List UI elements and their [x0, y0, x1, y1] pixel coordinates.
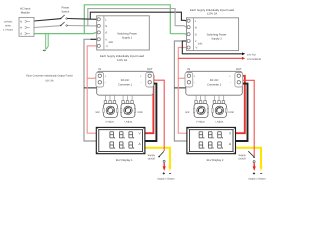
wire red arrow supply 1 output + — [163, 163, 166, 171]
svg-text:V Adjust: V Adjust — [196, 121, 205, 124]
svg-text:24V Fan: 24V Fan — [247, 54, 257, 57]
svg-text:Switch: Switch — [61, 10, 69, 13]
switching power supply 2 — [187, 18, 239, 51]
svg-text:V Adjust: V Adjust — [105, 121, 114, 124]
svg-text:Supply 2 Output: Supply 2 Output — [248, 177, 265, 180]
label 100K I adjust — [124, 111, 143, 124]
label power switch — [61, 6, 69, 13]
svg-text:N: N — [20, 21, 22, 24]
label 100K I adjust 2 — [215, 111, 234, 124]
svg-text:G: G — [20, 33, 22, 36]
label converter 1 IN OUT — [98, 68, 152, 71]
svg-text:OUT: OUT — [147, 68, 153, 71]
wire red tap to DC-DC converter 1 IN+ — [87, 76, 100, 78]
svg-text:Converter 1: Converter 1 — [118, 83, 133, 86]
wire thick black converter 1 OUT- to ELV display 1 right — [145, 82, 156, 141]
label 24V fan — [247, 54, 261, 62]
label supply 2 fuse note — [190, 9, 235, 16]
svg-text:120V 2A: 120V 2A — [117, 59, 128, 62]
svg-text:G: G — [195, 33, 197, 36]
svg-text:-: - — [105, 81, 106, 85]
label 50K V adjust — [95, 111, 114, 124]
label converter 2 IN OUT — [188, 68, 242, 71]
label supply 2 output terminals — [248, 172, 265, 180]
svg-text:100K: 100K — [137, 111, 143, 114]
label supply 1 output terminals — [157, 172, 174, 180]
svg-text:Supply: Supply — [238, 154, 246, 157]
svg-text:12V/110RPM: 12V/110RPM — [247, 58, 261, 61]
seven segment digits display 1 — [110, 132, 134, 149]
svg-text:G: G — [105, 32, 107, 35]
wire thick red converter 2 OUT+ to ELV display 2 right — [233, 76, 245, 133]
svg-text:60Hz: 60Hz — [5, 25, 11, 28]
potentiometer V adjust converter 2 — [193, 95, 208, 117]
svg-text:-: - — [230, 81, 231, 85]
svg-text:-: - — [141, 81, 142, 85]
svg-text:DC-DC: DC-DC — [210, 79, 219, 82]
wire red arrow supply 2 output + — [253, 163, 256, 171]
svg-text:H: H — [20, 27, 22, 30]
AC input module — [19, 17, 34, 36]
supply 2 on/off switch — [248, 151, 255, 162]
svg-text:120V 2A: 120V 2A — [207, 13, 218, 16]
wire black supply 2 pin V to 24V fan — [182, 41, 245, 55]
label AC ratings — [3, 21, 14, 32]
label AC input module — [20, 8, 31, 15]
wire red tap to DC-DC converter 2 IN+ — [178, 76, 189, 78]
svg-text:AC Input: AC Input — [20, 8, 31, 11]
wire hot black bus from power switch over supply 1 to supply 2 pin L — [90, 12, 186, 21]
wire green ground from AC module pin G to supply 1 pin G — [34, 33, 97, 34]
svg-text:ELV Display 2: ELV Display 2 — [207, 159, 224, 162]
wire black tap to DC-DC converter 2 IN- — [174, 83, 189, 88]
svg-text:I Adjust: I Adjust — [124, 121, 132, 124]
svg-text:-V: -V — [195, 47, 198, 50]
ELV display 2 — [187, 127, 236, 153]
svg-text:On/Off: On/Off — [239, 157, 246, 160]
svg-text:N: N — [105, 25, 107, 28]
wire neutral from AC module pin N to power switch — [34, 26, 60, 28]
wire red supply 1 pin -V down to ELV display 1 left — [87, 46, 97, 133]
svg-text:Each Supply Individually Input: Each Supply Individually Input Fused — [100, 55, 145, 58]
ground stub wires — [46, 34, 49, 50]
svg-text:Module: Module — [21, 12, 30, 15]
svg-text:Supply 1 Output: Supply 1 Output — [157, 177, 174, 180]
power switch pole 1 — [60, 15, 67, 19]
svg-text:Converter 2: Converter 2 — [207, 83, 222, 86]
svg-text:Each Converter Individually Ou: Each Converter Individually Output Fused — [26, 75, 73, 78]
svg-text:50K: 50K — [95, 111, 100, 114]
svg-text:50K: 50K — [185, 111, 190, 114]
power switch pole 2 — [60, 22, 67, 26]
label supply 1 fuse note — [100, 55, 145, 62]
wire neutral gray bus from power switch over supply 1 to supply 2 pin N — [88, 9, 187, 28]
wire thin red converter 1 OUT+ to supply 1 output switch — [150, 78, 164, 151]
wire thick black converter 2 OUT- to ELV display 2 right — [233, 82, 248, 141]
svg-text:N: N — [195, 27, 197, 30]
svg-text:Each Supply Individually Input: Each Supply Individually Input Fused — [190, 9, 235, 12]
svg-text:1.0 Amps: 1.0 Amps — [3, 29, 14, 32]
svg-text:IN: IN — [188, 68, 191, 71]
svg-text:Switching Power: Switching Power — [117, 33, 137, 36]
DC-DC converter 1 — [96, 71, 154, 95]
svg-text:-V: -V — [105, 45, 108, 48]
svg-text:Supply: Supply — [148, 154, 156, 157]
wire thin red converter 2 OUT+ to supply 2 output switch — [239, 78, 254, 156]
svg-text:I Adjust: I Adjust — [215, 121, 223, 124]
svg-text:24V: 24V — [109, 41, 114, 44]
wire ground green bus from AC module over supply 1 to supply 2 pin G — [84, 5, 186, 34]
wire thick red converter 1 OUT+ to ELV display 1 right — [145, 76, 153, 133]
label supply 2 on/off — [238, 154, 246, 161]
svg-text:IN: IN — [98, 68, 101, 71]
wire black tap to DC-DC converter 1 IN- — [84, 83, 101, 88]
wire yellow ELV display 2 to supply 2 output - — [233, 148, 263, 171]
potentiometer I adjust converter 2 — [212, 95, 227, 117]
wire red supply 2 pin -V to fan — [178, 57, 245, 60]
svg-text:Supply 2: Supply 2 — [211, 38, 222, 41]
ground symbol — [43, 50, 46, 51]
wire switch pole 2 to supply 1 pin N — [68, 25, 97, 27]
wire red supply 2 pin -V down to ELV display 2 left — [178, 48, 187, 134]
label 50K V adjust 2 — [185, 111, 205, 124]
supply 1 on/off switch — [158, 151, 165, 162]
svg-text:On/Off: On/Off — [148, 157, 155, 160]
label supply 1 on/off — [148, 154, 156, 161]
svg-text:V: V — [105, 38, 107, 41]
label ELV display 2 — [207, 159, 224, 162]
svg-text:V: V — [195, 40, 197, 43]
svg-text:Power: Power — [61, 6, 69, 9]
wire hot from AC module pin H to power switch — [34, 19, 60, 21]
potentiometer V adjust converter 1 — [103, 95, 118, 117]
potentiometer I adjust converter 1 — [120, 95, 135, 117]
wire gray supply 1 pin V down to ELV display 1 left — [84, 39, 97, 141]
svg-text:-: - — [194, 81, 195, 85]
switching power supply 1 — [97, 16, 150, 50]
svg-text:100K: 100K — [228, 111, 234, 114]
svg-text:Switching Power: Switching Power — [207, 34, 227, 37]
DC-DC converter 2 — [185, 71, 243, 95]
svg-text:ELV Display 1: ELV Display 1 — [116, 159, 133, 162]
label ELV display 1 — [116, 159, 133, 162]
svg-text:DC-DC: DC-DC — [121, 79, 130, 82]
svg-text:OUT: OUT — [236, 68, 242, 71]
svg-text:16V 3A: 16V 3A — [45, 79, 54, 82]
svg-text:120VAC: 120VAC — [4, 21, 13, 24]
wire switch pole 1 to supply 1 pin L — [68, 18, 97, 21]
label converter fuse note — [26, 75, 73, 83]
ELV display 1 — [96, 127, 145, 153]
seven segment digits display 2 — [199, 132, 223, 149]
wire gray supply 2 pin V down to ELV display 2 left — [174, 41, 187, 141]
svg-text:Supply 1: Supply 1 — [122, 37, 133, 40]
wire yellow ELV display 1 to supply 1 output - — [145, 148, 172, 171]
svg-text:24V: 24V — [198, 43, 203, 46]
